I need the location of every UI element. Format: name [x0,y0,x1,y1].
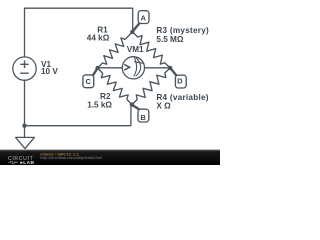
footer bar [0,150,220,165]
svg-text:44 kΩ: 44 kΩ [87,34,110,43]
ground [16,137,35,148]
junction at node A [130,30,134,34]
wire from node C to voltmeter left terminal [98,67,123,69]
junction at node B [130,102,134,106]
node B [132,105,148,122]
svg-text:VM1: VM1 [127,45,144,54]
junction at node D [168,66,172,70]
svg-text:1.5 kΩ: 1.5 kΩ [87,100,112,109]
svg-text:10 V: 10 V [41,67,58,76]
wire from voltmeter right terminal to node D [145,67,171,69]
resistor R3 [132,32,170,68]
svg-text:B: B [140,113,146,122]
node A [133,11,149,32]
wire bottom rail from ground junction to node B [25,105,132,126]
svg-text:X Ω: X Ω [156,102,171,111]
voltage source V1 [13,57,36,80]
junction at node C [95,66,99,70]
node D [171,68,187,88]
node C [83,69,97,88]
junction at ground rail [22,124,26,128]
resistor R1 [98,32,133,68]
wire top rail from V1 plus terminal to node A [25,8,133,57]
svg-text:▸LAB: ▸LAB [20,160,35,165]
resistor R4 [132,68,170,105]
wire from V1 minus terminal down to ground junction [24,80,26,137]
svg-text:C: C [86,77,92,86]
resistor R2 [98,68,132,105]
svg-text:5.5 MΩ: 5.5 MΩ [156,35,183,44]
svg-text:http://circuitlab.com/c6dp54s6: http://circuitlab.com/c6dp54s643u2 [40,155,103,160]
svg-text:D: D [177,77,183,86]
voltmeter VM1 [122,57,144,79]
svg-text:A: A [140,13,146,22]
CircuitLab logo [8,156,35,166]
